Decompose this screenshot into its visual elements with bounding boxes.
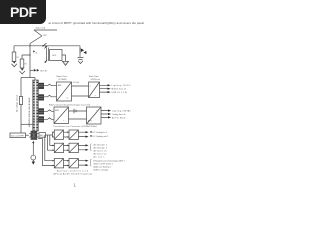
AUX box — [39, 133, 46, 138]
converter U2 — [57, 82, 72, 101]
svg-text:USB 5V 1,2 A: USB 5V 1,2 A — [112, 91, 128, 94]
wire row3 feed a — [45, 135, 55, 161]
svg-text:Lighting 230VAC: Lighting 230VAC — [112, 110, 132, 113]
output arrows row3 — [78, 161, 85, 165]
svg-text:Audio Car battery 4: Audio Car battery 4 — [94, 166, 112, 169]
wire O3 to U4 — [44, 110, 54, 112]
wire row2 feed a — [50, 135, 55, 145]
wire U4 to U5 b — [69, 118, 87, 120]
converter U3 — [89, 82, 100, 98]
svg-text:Water 1.5 HP motor 1: Water 1.5 HP motor 1 — [94, 163, 114, 166]
svg-text:DC voltage sensor: DC voltage sensor — [16, 95, 19, 112]
wire panel drop — [29, 44, 31, 46]
output arrows U3 — [100, 85, 108, 92]
lamp L1 — [31, 155, 36, 160]
svg-text:FET: FET — [44, 35, 48, 37]
diode arrow under R1 — [13, 62, 16, 64]
optocoupler O2 — [39, 95, 44, 101]
converter box U6 — [50, 50, 62, 61]
output arrows row2 — [78, 145, 85, 149]
wires A5 to A6 — [64, 161, 70, 166]
wire main bus — [14, 45, 80, 47]
optocoupler O1 — [39, 83, 44, 89]
svg-text:Buffer 1 Charger: Buffer 1 Charger — [94, 170, 109, 172]
ground G4 — [78, 58, 84, 64]
wire AUX to rows — [46, 134, 53, 136]
svg-text:Mobile fans 2x: Mobile fans 2x — [112, 89, 127, 91]
brace row3 — [90, 159, 91, 166]
resistor R2 — [20, 59, 24, 68]
diode arrow under R2 — [21, 69, 24, 71]
svg-text:Solar contr MPPT: Solar contr MPPT — [11, 134, 24, 137]
solar panel PV1 — [30, 30, 42, 44]
aux row 2 — [54, 143, 108, 159]
svg-text:R1: R1 — [17, 57, 19, 59]
svg-text:1: 1 — [74, 183, 77, 188]
microcontroller U1 — [33, 80, 39, 131]
svg-text:AC blender 2: AC blender 2 — [94, 147, 108, 150]
converter A3 — [54, 143, 63, 152]
relay K1 — [31, 131, 38, 140]
aux input arrowheads — [53, 131, 69, 166]
svg-text:AVR: AVR — [58, 84, 62, 87]
wire left rail — [20, 78, 22, 134]
wire U4 to U5 a — [69, 110, 87, 112]
svg-text:~: ~ — [95, 94, 97, 97]
svg-text:AVR: AVR — [55, 109, 59, 112]
optocoupler O3 — [39, 109, 44, 115]
svg-text:Air TV / Room: Air TV / Room — [112, 116, 126, 119]
svg-text:AC fans 1 2x: AC fans 1 2x — [94, 150, 107, 153]
brace row2 — [90, 144, 91, 151]
svg-text:AUX: AUX — [40, 134, 44, 137]
svg-text:Boost Conv: Boost Conv — [57, 75, 67, 78]
svg-text:AC blender 1: AC blender 1 — [94, 144, 108, 147]
wire U2 to U3 a — [72, 85, 89, 87]
ground arrow G5 — [32, 160, 34, 162]
converter A4 — [69, 143, 78, 152]
DC IN arrows — [30, 69, 34, 71]
wire IC top stub — [34, 78, 36, 81]
svg-text:Solar Cell: Solar Cell — [36, 27, 46, 30]
svg-text:Lighting 12VDC: Lighting 12VDC — [112, 84, 132, 87]
resistor R3 on rail — [19, 97, 22, 105]
wire O2 to U2 — [44, 95, 57, 97]
converter A2 — [69, 130, 78, 139]
svg-text:~: ~ — [63, 120, 65, 123]
wire O1 to U2 — [44, 84, 57, 86]
converter U5 — [87, 107, 102, 124]
ground G2 — [20, 71, 25, 74]
optocoupler O4 — [39, 117, 44, 123]
output arrows row1 — [78, 132, 85, 136]
resistor R1 — [12, 52, 16, 62]
wire top line — [34, 29, 57, 31]
svg-text:(TI 250W): (TI 250W) — [58, 79, 67, 81]
svg-text:Transformer xxx Converter (230: Transformer xxx Converter (230VAC/50Hz) — [53, 125, 97, 128]
svg-text:Q1: Q1 — [35, 52, 37, 54]
wire vertical bus — [29, 46, 31, 78]
svg-text:=: = — [67, 97, 69, 100]
transformer arrows — [44, 46, 48, 49]
converter U4 — [54, 107, 69, 124]
TVS D1 — [81, 49, 84, 52]
relay feed box K2 — [10, 133, 26, 138]
wire box to ground — [62, 55, 66, 61]
ground G3 — [63, 61, 69, 65]
svg-text:Ceiling fans 4x: Ceiling fans 4x — [112, 114, 126, 116]
aux row 1 — [54, 130, 109, 139]
svg-text:DC link: DC link — [73, 82, 79, 84]
svg-text:=: = — [90, 86, 92, 88]
svg-text:DC Ceiling fan 1: DC Ceiling fan 1 — [93, 132, 108, 134]
node tick — [43, 43, 47, 46]
aux row 3 — [54, 159, 125, 172]
battery B1 ticks — [74, 109, 76, 113]
wire bus right drop — [79, 46, 81, 57]
wire O4 to U4 — [44, 118, 54, 120]
svg-text:Buck Conv: Buck Conv — [89, 76, 99, 78]
converter A5 — [54, 159, 63, 168]
output arrows U5 — [101, 111, 108, 118]
svg-text:Auxiliary converters 1,2,3: Auxiliary converters 1,2,3 — [57, 170, 89, 173]
svg-text:Bidirectional (Charge/discharg: Bidirectional (Charge/discharge) Conv (T… — [49, 103, 90, 106]
ground G1 — [12, 64, 17, 67]
svg-text:AC fans 2 2x: AC fans 2 2x — [94, 153, 107, 156]
node junction — [29, 45, 30, 46]
svg-text:(DFCxxx AC/DC Variable frequen: (DFCxxx AC/DC Variable frequency) — [53, 173, 92, 176]
svg-text:R2: R2 — [25, 63, 27, 65]
wire row3 feed b — [38, 138, 54, 165]
wire rail top — [21, 77, 35, 79]
wires A3 to A4 — [64, 145, 70, 150]
svg-text:AVR: AVR — [88, 120, 92, 123]
wire bus left drop — [13, 46, 15, 52]
transistor Q1 — [33, 50, 35, 52]
svg-text:12V/5V out: 12V/5V out — [91, 78, 101, 81]
svg-text:al circuit of MPPT (provided w: al circuit of MPPT (provided with functi… — [49, 21, 145, 25]
svg-text:OUT IN: OUT IN — [40, 71, 47, 73]
converter A6 — [69, 159, 78, 168]
PDF badge — [0, 0, 46, 24]
wire box to relay — [26, 134, 29, 136]
wire U2 to U3 b — [72, 95, 89, 97]
svg-text:DC Cooling unit 1: DC Cooling unit 1 — [93, 135, 110, 138]
svg-text:MOS: MOS — [52, 55, 57, 57]
wires A1 to A2 — [64, 132, 70, 137]
svg-text:Emergency second storage 230V: Emergency second storage 230V 1 — [94, 160, 126, 163]
wire row1 feed — [53, 132, 55, 137]
svg-text:ARDUINO MEGA 2560 BOARD: ARDUINO MEGA 2560 BOARD — [28, 97, 31, 127]
wire rail to IC — [21, 123, 33, 125]
wire branch 2 — [22, 55, 30, 59]
svg-text:AC iron 1: AC iron 1 — [94, 156, 106, 159]
converter A1 — [54, 130, 63, 139]
transformer T1 bars — [46, 48, 48, 62]
wire relay down — [32, 141, 34, 155]
wire row2 feed b — [48, 135, 55, 150]
